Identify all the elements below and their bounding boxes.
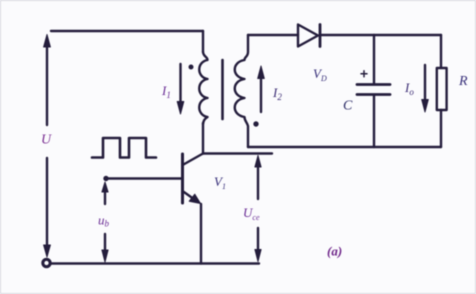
wire secondary top left segment: [248, 34, 298, 36]
capacitor C plus sign: [361, 71, 367, 77]
transistor V1 base bar: [181, 154, 184, 203]
input voltage arrow U (upper shaft): [46, 46, 48, 125]
wire primary bottom vertical (to collector): [202, 123, 204, 154]
current I2 arrowhead up: [258, 66, 265, 79]
current Io arrowhead down: [422, 100, 429, 113]
wire bottom horizontal: [50, 262, 259, 264]
wire secondary bottom horizontal: [248, 146, 441, 148]
transistor V1 emitter arrowhead: [189, 194, 200, 203]
voltage Uce arrowhead up: [255, 156, 261, 168]
transformer secondary winding: [235, 35, 248, 147]
input terminal open circle: [43, 259, 50, 266]
voltage ub arrow upper shaft: [104, 190, 106, 204]
diode VD cathode bar: [319, 25, 322, 47]
current I1 arrow shaft: [179, 64, 181, 102]
transformer primary winding: [199, 52, 207, 124]
voltage Uce arrow upper shaft: [257, 165, 259, 199]
wire base horizontal: [106, 177, 181, 179]
current I2 arrow shaft: [260, 78, 262, 112]
svg-text:(a): (a): [327, 244, 342, 259]
svg-text:C: C: [343, 99, 353, 114]
svg-text:R: R: [458, 74, 468, 89]
wire capacitor bottom branch: [373, 95, 375, 147]
wire capacitor top branch: [373, 35, 375, 84]
base node dot: [103, 176, 108, 181]
wire collector extension to right: [203, 152, 272, 154]
transistor V1 collector lead: [184, 154, 204, 165]
voltage Uce arrowhead down: [255, 250, 261, 262]
current Io arrow shaft: [424, 65, 426, 100]
svg-text:U: U: [41, 133, 52, 148]
voltage ub arrow lower shaft: [104, 234, 106, 251]
wire right side bottom vertical: [440, 110, 442, 147]
diode VD triangle: [298, 25, 318, 47]
wire secondary top right segment: [320, 34, 441, 36]
primary polarity dot: [189, 65, 194, 70]
input voltage arrowhead down: [44, 245, 51, 257]
input voltage arrowhead up: [44, 35, 51, 48]
capacitor C bottom plate: [357, 93, 390, 96]
wire top horizontal: [51, 30, 203, 32]
input voltage arrow U (lower shaft): [46, 158, 48, 248]
voltage ub arrowhead down: [102, 250, 108, 262]
current I1 arrowhead down: [177, 102, 184, 115]
transformer core: [221, 60, 224, 119]
base drive pulse waveform: [92, 138, 156, 158]
wire primary top vertical: [202, 31, 204, 52]
secondary polarity dot: [253, 121, 258, 126]
wire right side top vertical: [440, 35, 442, 68]
voltage Uce arrow lower shaft: [257, 228, 259, 250]
voltage ub arrowhead up: [102, 182, 108, 192]
transistor V1 emitter lead: [183, 191, 199, 202]
resistor R body: [437, 68, 447, 110]
wire emitter vertical: [200, 204, 202, 264]
capacitor C top plate: [357, 83, 390, 86]
